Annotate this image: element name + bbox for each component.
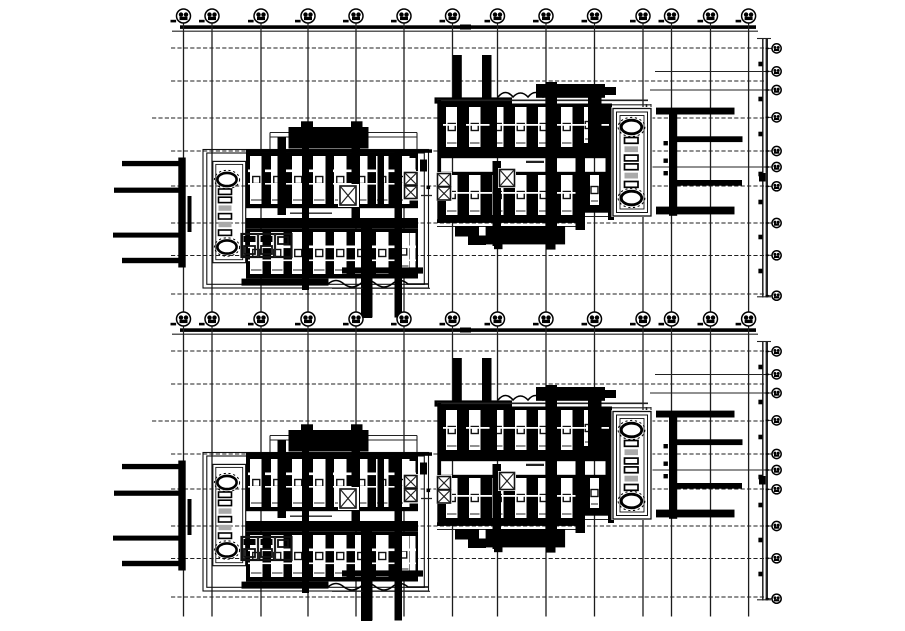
right residential building plan <box>420 55 653 250</box>
right tick squares <box>758 62 765 274</box>
column grid vertical lines <box>184 31 749 314</box>
left wing corridor bars <box>113 158 192 268</box>
grid horizontal lines <box>152 48 767 294</box>
lower floor plan sheet (duplicate) <box>113 312 781 621</box>
grid bubbles row <box>171 9 756 32</box>
upper floor plan sheet <box>113 9 781 318</box>
right wing corridor bars <box>656 108 743 216</box>
grid band line <box>172 25 758 32</box>
left residential building plan <box>203 121 432 318</box>
right grid bubbles <box>766 44 782 301</box>
right elevation lines <box>757 38 771 298</box>
